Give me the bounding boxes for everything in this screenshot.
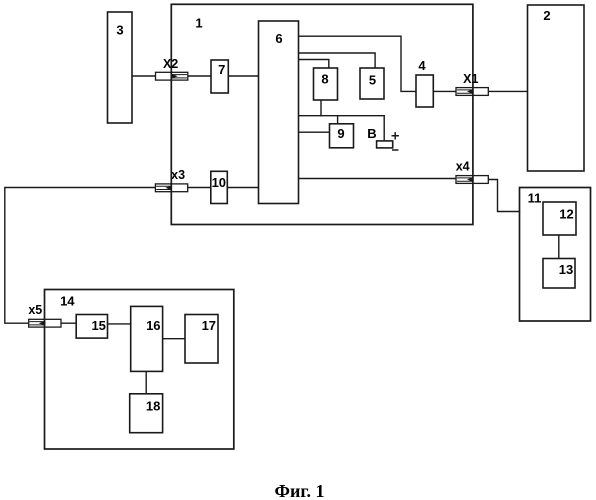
- svg-text:4: 4: [418, 58, 426, 73]
- svg-text:15: 15: [91, 318, 105, 333]
- svg-text:x5: x5: [28, 303, 42, 317]
- svg-text:x4: x4: [456, 160, 470, 174]
- svg-text:Фиг. 1: Фиг. 1: [275, 481, 325, 500]
- svg-text:8: 8: [321, 72, 328, 87]
- svg-text:B: B: [367, 126, 376, 141]
- svg-text:17: 17: [202, 318, 216, 333]
- svg-text:2: 2: [543, 8, 550, 23]
- svg-text:X1: X1: [463, 72, 478, 86]
- svg-text:13: 13: [559, 262, 573, 277]
- svg-text:x3: x3: [171, 168, 185, 182]
- svg-text:1: 1: [195, 16, 202, 31]
- svg-text:16: 16: [146, 318, 160, 333]
- svg-text:3: 3: [116, 23, 123, 38]
- svg-text:5: 5: [369, 72, 376, 87]
- svg-text:9: 9: [337, 126, 344, 141]
- svg-text:10: 10: [212, 175, 226, 190]
- svg-text:6: 6: [275, 31, 282, 46]
- svg-text:11: 11: [528, 191, 542, 206]
- svg-text:14: 14: [60, 294, 75, 309]
- svg-text:X2: X2: [163, 57, 178, 71]
- svg-text:18: 18: [146, 399, 160, 414]
- svg-text:12: 12: [559, 207, 573, 222]
- svg-text:7: 7: [218, 62, 225, 77]
